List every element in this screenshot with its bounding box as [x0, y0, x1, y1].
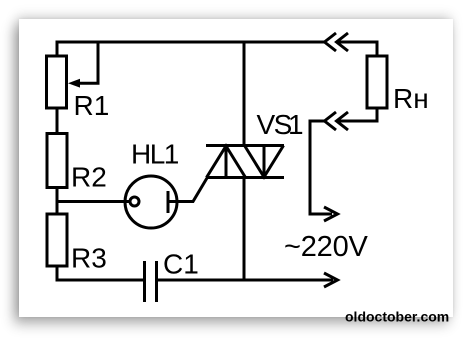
svg-text:~220V: ~220V [284, 231, 369, 263]
svg-text:R1: R1 [74, 90, 110, 121]
svg-text:R2: R2 [71, 162, 107, 193]
svg-text:Rн: Rн [393, 83, 429, 114]
svg-text:1: 1 [288, 109, 304, 140]
svg-text:HL1: HL1 [131, 139, 179, 170]
svg-text:R3: R3 [71, 243, 107, 274]
svg-text:C1: C1 [163, 249, 199, 280]
svg-text:oldoctober.com: oldoctober.com [345, 309, 449, 325]
svg-text:VS: VS [257, 109, 292, 140]
